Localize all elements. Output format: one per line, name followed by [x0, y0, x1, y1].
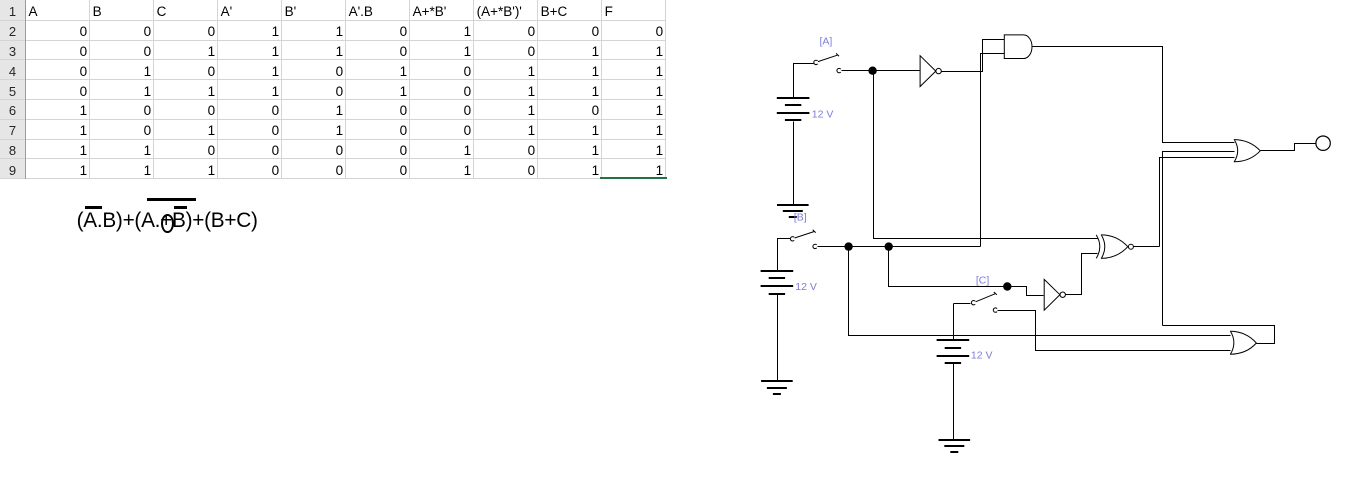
wire switch C left down to battery C — [954, 304, 971, 341]
wire U3 output up to XNOR U4 bottom input — [1066, 254, 1098, 295]
svg-text:[A]: [A] — [820, 35, 833, 47]
junction node B1 — [844, 242, 852, 250]
wire U6 output to indicator — [1261, 144, 1316, 151]
switch C lever (open) — [976, 292, 997, 302]
wire switch C right to OR U5 bottom input — [998, 311, 1231, 351]
wire node B2 to AND riser — [893, 246, 981, 248]
switch B lever (open) — [795, 230, 816, 238]
wire node A to inverter U1 input — [877, 70, 920, 72]
wire battery B top to switch B — [778, 239, 791, 271]
battery V2 12V (B) — [761, 271, 794, 294]
wire U2 output to OR U6 top input — [1033, 47, 1235, 143]
wire U1 output up to AND U2 top input — [942, 40, 1005, 72]
output indicator lamp — [1316, 136, 1330, 150]
wire switch B to node B — [818, 246, 845, 248]
junction node A — [868, 67, 876, 75]
battery V3 12V (C) — [937, 340, 970, 363]
svg-text:[C]: [C] — [976, 274, 990, 286]
switch A lever (open) — [818, 53, 839, 61]
svg-text:12 V: 12 V — [971, 350, 993, 362]
junction node C — [1003, 282, 1011, 290]
OR gate U5 (B+C) — [1230, 331, 1256, 354]
wire node C to inverter U3 input — [1012, 287, 1044, 296]
switch A left contact — [814, 60, 818, 64]
wire battery A minus to ground — [793, 122, 795, 205]
ground B — [761, 381, 793, 394]
wire battery A top to switch A — [794, 64, 814, 98]
svg-text:12 V: 12 V — [812, 108, 834, 120]
svg-text:[B]: [B] — [794, 211, 807, 223]
switch B right contact — [813, 244, 817, 248]
wire battery C minus to ground — [953, 364, 955, 440]
wire U5 output up to OR U6 middle input — [1163, 152, 1275, 344]
XNOR gate U4 — [1096, 235, 1100, 259]
switch C left contact — [971, 301, 975, 305]
AND gate U2 — [1004, 35, 1032, 59]
junction node B2 — [885, 242, 893, 250]
switch A right contact — [837, 68, 841, 72]
wire switch A to node A — [842, 70, 869, 72]
wire B riser up to AND U2 bottom input — [981, 54, 1005, 247]
wire node A down and right to XNOR U4 top input — [874, 75, 1098, 239]
wire node B2 down to node C — [889, 251, 1004, 287]
svg-text:12 V: 12 V — [795, 281, 817, 293]
boolean formula — [0, 0, 1, 1]
wire node B1 to node B2 — [853, 246, 885, 248]
truth table spreadsheet — [0, 0, 700, 200]
inverter U3 (NOT) — [1044, 279, 1060, 310]
ground C — [939, 440, 971, 452]
wire battery B minus to ground — [777, 295, 779, 382]
inverter U1 (NOT A) — [920, 56, 936, 87]
ground A — [777, 205, 809, 217]
battery V1 12V (A) — [777, 98, 810, 120]
wire node B1 down to OR U5 top input — [849, 251, 1231, 336]
OR gate U6 (final sum F) — [1234, 139, 1261, 162]
switch B left contact — [790, 237, 794, 241]
switch C right contact — [993, 308, 997, 312]
wire U4 output up to OR U6 bottom input — [1134, 158, 1235, 247]
